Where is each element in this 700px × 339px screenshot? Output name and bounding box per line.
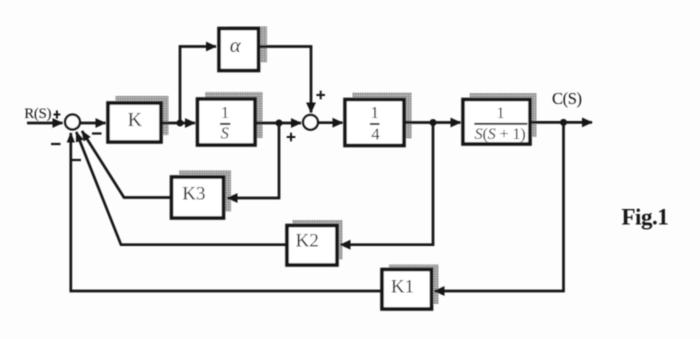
svg-text:K3: K3 bbox=[182, 183, 205, 204]
block alpha shadow bbox=[228, 27, 268, 63]
svg-text:1: 1 bbox=[221, 103, 229, 122]
node D junction dot at output bbox=[560, 119, 567, 126]
svg-text:1: 1 bbox=[497, 105, 505, 122]
sign minus right of S1 bbox=[92, 132, 102, 134]
wire S1 to block K bbox=[80, 122, 106, 125]
node A junction dot after K bbox=[177, 120, 184, 127]
summing junction S1 bbox=[65, 115, 80, 130]
svg-text:R(S): R(S) bbox=[24, 106, 51, 122]
wire node A up and right into block alpha bbox=[180, 47, 216, 124]
svg-text:S(S + 1): S(S + 1) bbox=[474, 124, 525, 143]
block 1/4 bbox=[345, 100, 404, 146]
block K3 shadow bbox=[179, 171, 231, 212]
block K2 shadow bbox=[293, 220, 343, 260]
block K shadow bbox=[116, 96, 169, 135]
wire 1/S output to summing junction S2 through node B bbox=[255, 122, 301, 125]
wire R(S) input arrow into summing junction S1 bbox=[27, 122, 63, 125]
svg-text:α: α bbox=[230, 33, 242, 57]
block 1/(S(S+1)) shadow bbox=[470, 93, 537, 137]
wire plant output to C(S) through node D bbox=[530, 121, 592, 124]
wire alpha output right and down into summing junction S2 bbox=[258, 47, 311, 113]
wire node C down and left into block K2 bbox=[341, 123, 434, 245]
block 1/4 shadow bbox=[353, 93, 412, 139]
sign minus left below S1 bbox=[51, 143, 61, 145]
block 1/S shadow bbox=[205, 92, 263, 138]
wire 1/4 output to block 1/(S(S+1)) through node C bbox=[404, 121, 461, 124]
block 1/(S(S+1)) bbox=[463, 100, 530, 145]
wire K2 output left then diagonal up into summing junction S1 bbox=[76, 132, 287, 245]
block K bbox=[108, 103, 161, 142]
svg-text:K: K bbox=[128, 109, 143, 131]
svg-text:1: 1 bbox=[371, 103, 379, 122]
summing junction S2 bbox=[303, 115, 318, 130]
wire node D down and left into block K1 bbox=[435, 122, 564, 291]
sign plus at S1 input bbox=[54, 110, 61, 118]
svg-text:K1: K1 bbox=[391, 277, 414, 298]
sign plus above S2 bbox=[316, 91, 325, 100]
svg-text:4: 4 bbox=[371, 125, 379, 144]
node B junction dot after 1/S bbox=[276, 120, 283, 127]
sign minus on diagonal below S1 bbox=[72, 159, 82, 161]
block K1 bbox=[382, 270, 432, 310]
wire S2 to block 1/4 bbox=[319, 121, 343, 124]
wire node B down and left into block K3 bbox=[228, 123, 280, 198]
block K2 bbox=[287, 226, 337, 266]
svg-text:K2: K2 bbox=[296, 231, 319, 252]
node C junction dot after 1/4 bbox=[430, 119, 437, 126]
wire K1 output left and up into summing junction S1 bbox=[71, 133, 382, 291]
block K3 bbox=[172, 177, 224, 218]
wire K3 output left then diagonal up into summing junction S1 bbox=[82, 131, 172, 198]
svg-text:Fig.1: Fig.1 bbox=[622, 205, 669, 230]
block K1 shadow bbox=[389, 265, 439, 305]
wire K to block 1/S through node A bbox=[161, 122, 195, 125]
block alpha bbox=[219, 29, 259, 71]
sign plus below left of S2 bbox=[287, 133, 296, 142]
block 1/S bbox=[198, 99, 256, 145]
svg-text:C(S): C(S) bbox=[552, 89, 582, 108]
svg-text:S: S bbox=[221, 123, 229, 142]
